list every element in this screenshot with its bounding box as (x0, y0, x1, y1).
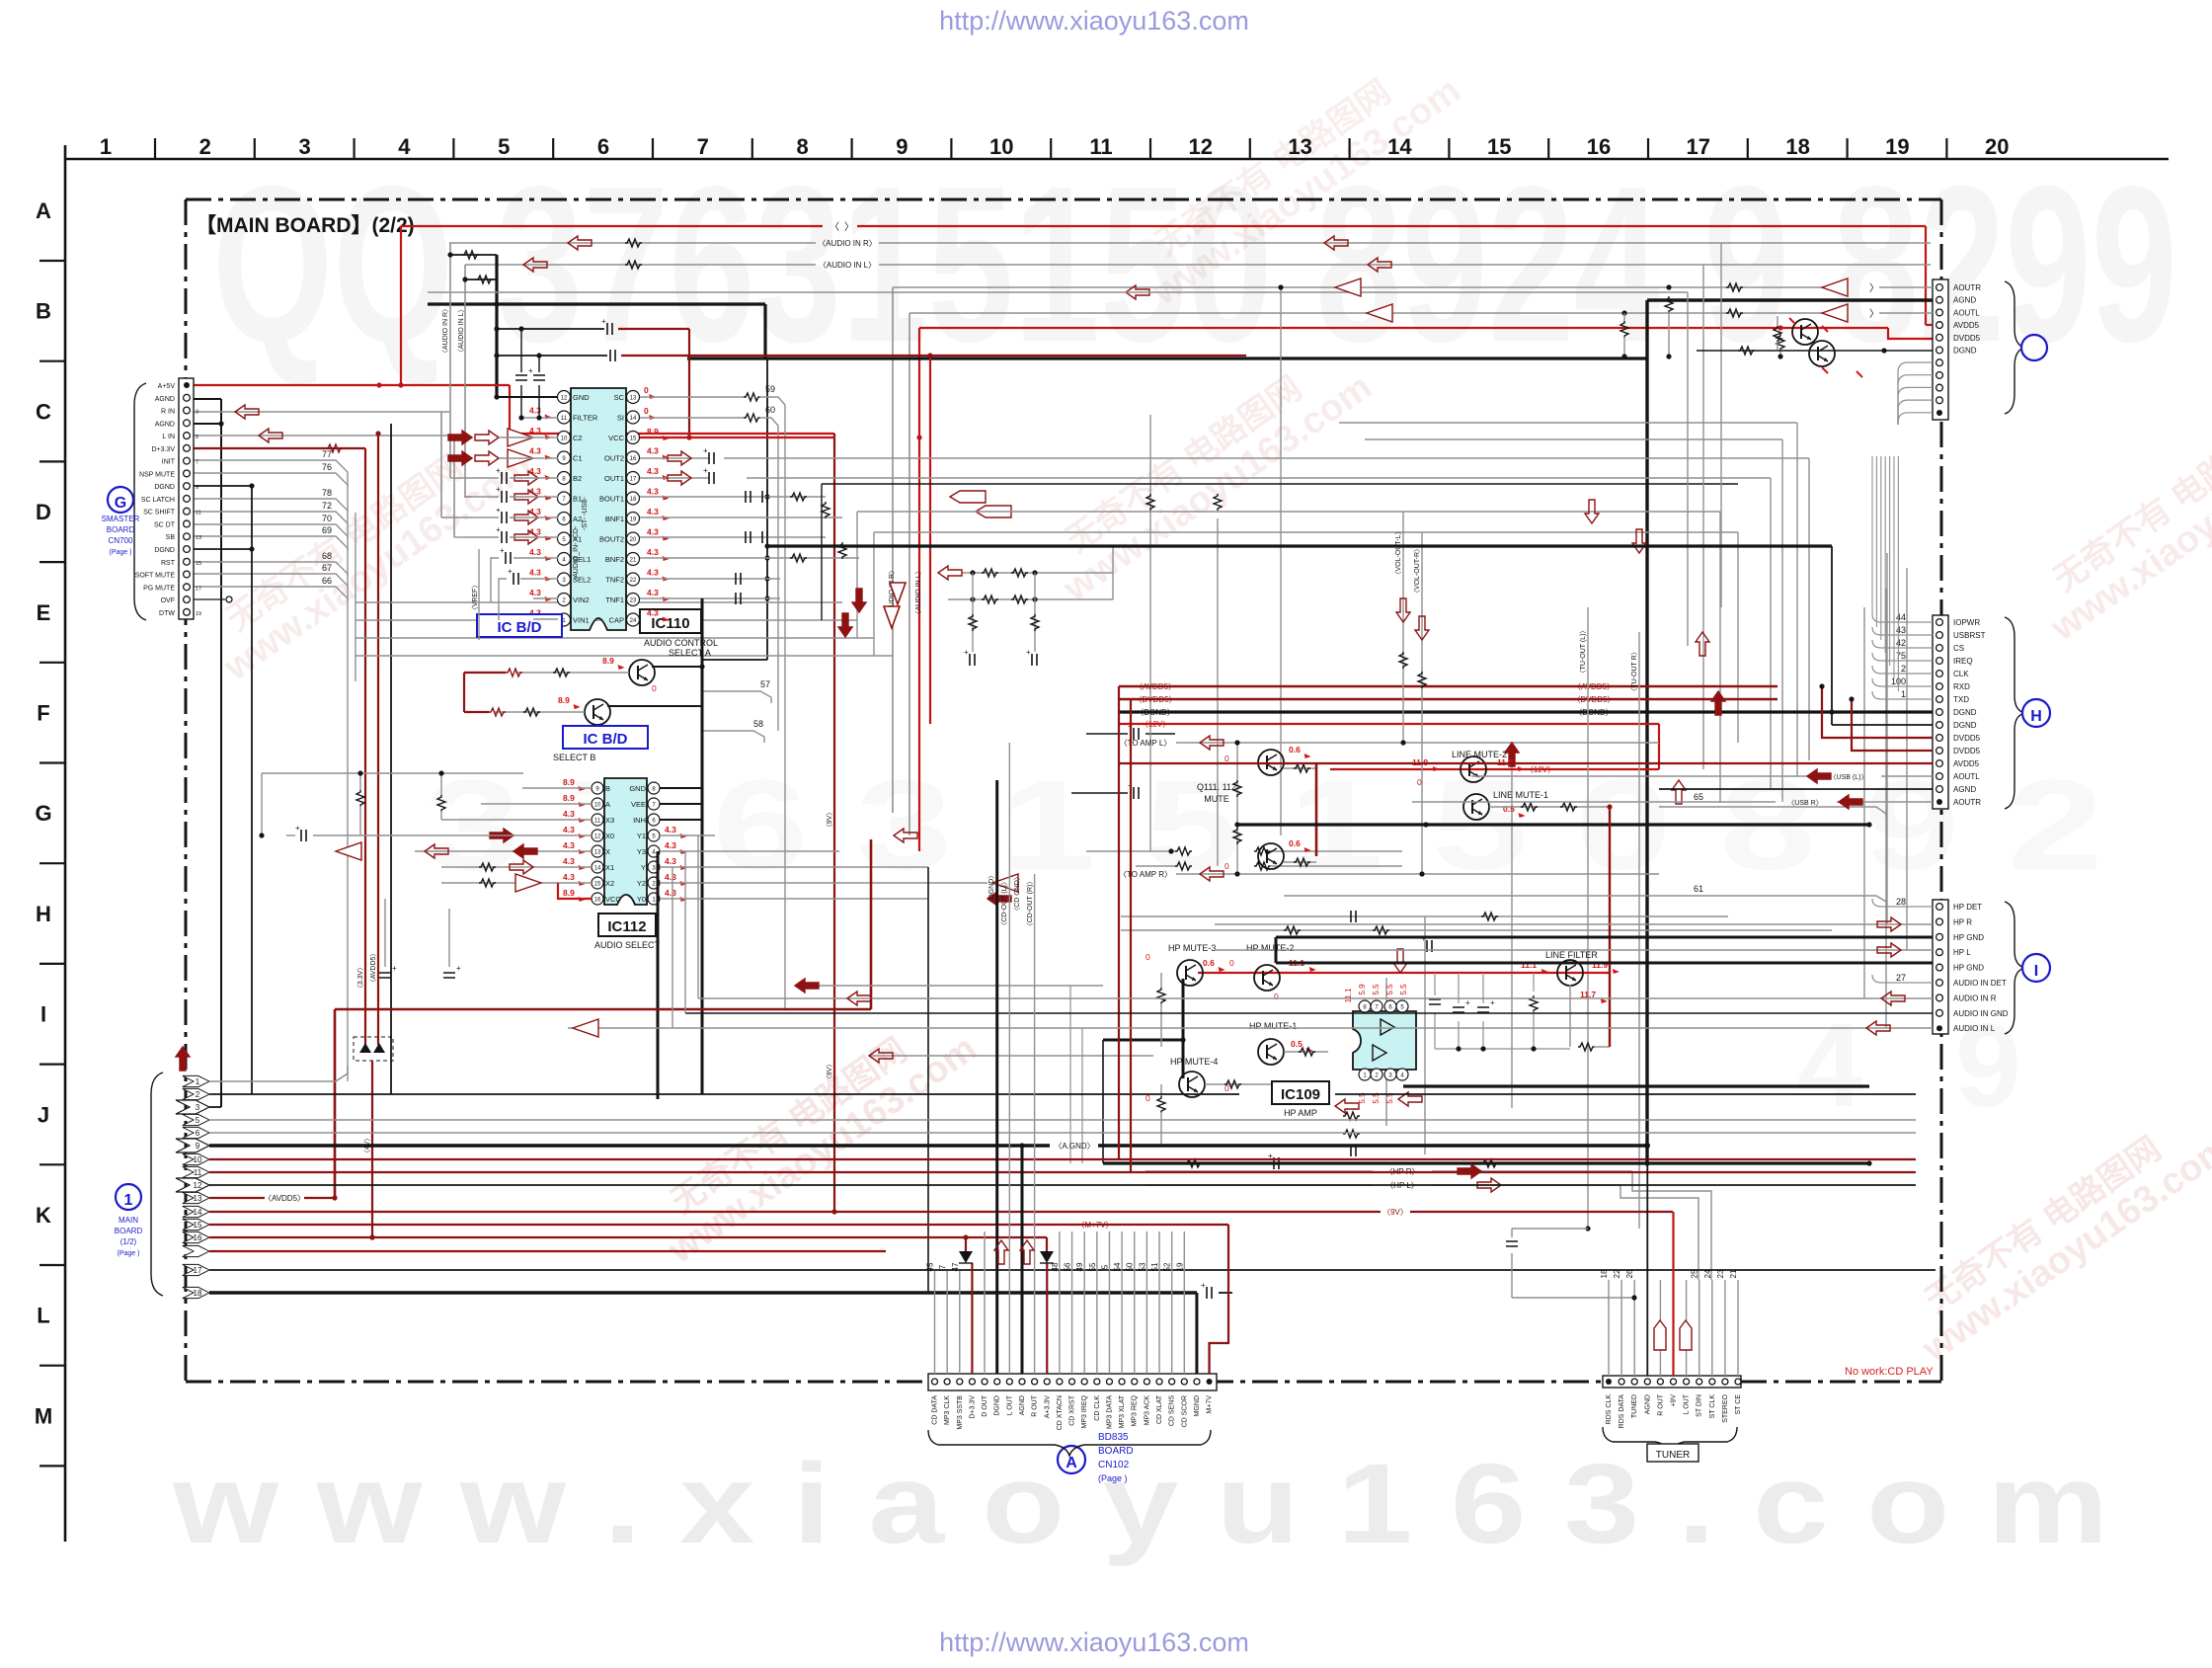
solid up arrow left (176, 1047, 190, 1071)
wire AUDIO IN R (449, 242, 816, 244)
wire G pin 66 (194, 587, 348, 600)
svg-text:〈VOL-OUT-R〉: 〈VOL-OUT-R〉 (1413, 545, 1421, 596)
pin CN102 MP3 ACK (1144, 1379, 1149, 1385)
pin IC110 BNF2 pin 21 (627, 553, 640, 566)
pin J 6 (183, 1127, 209, 1138)
pin H DGND (1936, 722, 1943, 729)
svg-text:CD CLK: CD CLK (1094, 1395, 1101, 1421)
bus 12V red (1119, 723, 1659, 725)
pin TUNER STEREO (1722, 1379, 1728, 1385)
connector right top box (1933, 279, 1948, 420)
caps below select (379, 973, 391, 978)
svg-text:DVDD5: DVDD5 (1953, 334, 1981, 343)
svg-text:A: A (605, 800, 610, 809)
svg-text:〈CD-OUT (L)〉: 〈CD-OUT (L)〉 (1000, 878, 1008, 929)
svg-text:SC DT: SC DT (154, 521, 176, 528)
svg-text:B1: B1 (573, 495, 582, 504)
vertical 1832 down (1808, 458, 1810, 760)
resistor vertical hp4 (1157, 1096, 1165, 1113)
svg-text:28: 28 (1896, 897, 1906, 907)
svg-text:2: 2 (196, 1090, 200, 1099)
svg-text:4.3: 4.3 (563, 825, 575, 834)
svg-text:12: 12 (594, 834, 601, 840)
svg-text:0: 0 (1229, 958, 1234, 968)
svg-text:A+5V: A+5V (158, 383, 176, 390)
pin J 13 (183, 1192, 209, 1203)
svg-text:AOUTR: AOUTR (1953, 283, 1981, 292)
solid up arrows F (1505, 743, 1519, 766)
label IC110 box (640, 609, 701, 633)
svg-text:+: + (508, 567, 513, 576)
svg-text:4.3: 4.3 (529, 547, 541, 557)
pin IC110 A1 pin 5 (558, 532, 571, 545)
wire G pin 77 (194, 460, 348, 474)
svg-text:4 9: 4 9 (1797, 999, 2051, 1132)
wire J15 M+7V (209, 1224, 1228, 1226)
pin right-top 11 (1936, 410, 1942, 416)
svg-text:19: 19 (196, 611, 201, 617)
svg-text:17: 17 (1687, 134, 1710, 159)
pentagon arrow row 503 (950, 491, 986, 503)
svg-text:+: + (1026, 648, 1031, 657)
pin IC110 CAP pin 24 (627, 613, 640, 626)
svg-text:SOFT MUTE: SOFT MUTE (135, 573, 176, 580)
svg-text:AVDD5: AVDD5 (1953, 321, 1980, 330)
svg-text:CN700: CN700 (109, 536, 133, 545)
extra verticals 1084 1096 (1069, 986, 1071, 1163)
wire dgnd right (1697, 350, 1933, 352)
svg-text:〈TO AMP R〉: 〈TO AMP R〉 (1119, 870, 1172, 879)
wire gray bundle vertical 360 (355, 513, 356, 681)
wire bus vertical left (892, 287, 894, 813)
label IC B/D blue box 2 (563, 726, 648, 749)
svg-text:23: 23 (630, 598, 637, 604)
wire TUNER col +9V (1672, 1212, 1674, 1376)
pin CN102 AGND (1019, 1379, 1025, 1385)
svg-text:5.5: 5.5 (1372, 984, 1381, 995)
pin CN102 A+3.3V (1044, 1379, 1050, 1385)
svg-text:AGND: AGND (155, 421, 175, 428)
pin IC110 OUT2 pin 16 (627, 451, 640, 464)
pentagon arrow row 518 (976, 506, 1011, 517)
pin CN102 MP3 DATA (1106, 1379, 1112, 1385)
svg-text:INH: INH (633, 816, 646, 825)
pin right-top DGND (1936, 347, 1943, 354)
label Q111 112 MUTE (1019, 1143, 1024, 1148)
svg-text:0: 0 (1145, 952, 1150, 962)
pin J blank (183, 1245, 209, 1256)
svg-text:+: + (703, 466, 708, 475)
svg-text:19: 19 (1175, 1262, 1184, 1271)
wire AVDD5 pin (1926, 324, 1933, 326)
svg-text:IC B/D: IC B/D (584, 731, 628, 748)
wire TUNER col AGND (1646, 1146, 1648, 1376)
svg-text:+9V: +9V (1671, 1394, 1678, 1407)
wire IC110 BOUT1 (640, 496, 826, 498)
arrows tuner R OUT L OUT (1654, 1320, 1666, 1350)
wire IC110 GND (497, 396, 558, 398)
watermark pink diagonal (1893, 1096, 2212, 1371)
svg-text:8.9: 8.9 (558, 695, 570, 705)
cap arrow input (502, 491, 507, 503)
arrow mid l (1368, 258, 1391, 272)
connector TUNER box (1603, 1376, 1741, 1388)
svg-text:〈TO AMP L〉: 〈TO AMP L〉 (1120, 739, 1172, 748)
svg-text:3: 3 (298, 134, 310, 159)
hatched up arrows (1672, 780, 1686, 804)
svg-text:I: I (2034, 963, 2038, 980)
pin G OVF (184, 596, 191, 603)
pin CN102 MP3 IREQ (1081, 1379, 1087, 1385)
svg-text:11: 11 (561, 416, 568, 422)
pin J 3 (176, 1100, 209, 1114)
transistor red marks and resistor AVDD5 (1777, 325, 1782, 330)
dark red vertical mute (1315, 762, 1318, 856)
svg-text:65: 65 (1694, 792, 1703, 802)
wire J18 thick (209, 1291, 1197, 1294)
svg-text:SMASTER: SMASTER (102, 515, 140, 523)
svg-text:〈AVDD5〉: 〈AVDD5〉 (1573, 682, 1615, 691)
svg-text:11: 11 (594, 819, 601, 825)
pin G NSP MUTE (184, 470, 191, 477)
svg-text:14: 14 (630, 416, 637, 422)
svg-text:I: I (40, 1002, 46, 1027)
svg-text:IC112: IC112 (607, 918, 646, 935)
wire CN102 col MP3 ACK (1145, 1231, 1147, 1374)
watermark pink diagonal (639, 997, 984, 1272)
vertical 1709 down (1687, 292, 1689, 646)
transistor HP MUTE-1 (1258, 1039, 1284, 1065)
pin right-top 8 (1936, 372, 1943, 379)
wire dark red vertical 470 (463, 673, 465, 712)
wire left rail down (261, 773, 263, 835)
wire line filter down (1569, 985, 1571, 1047)
svg-text:59: 59 (765, 384, 775, 394)
svg-text:17: 17 (194, 1266, 202, 1275)
svg-text:〉: 〉 (1869, 282, 1879, 294)
svg-text:HP MUTE-3: HP MUTE-3 (1168, 943, 1216, 953)
svg-text:PG MUTE: PG MUTE (143, 585, 175, 592)
pin TUNER ST CLK (1709, 1379, 1715, 1385)
svg-text:〈DVDD5〉: 〈DVDD5〉 (1134, 695, 1176, 704)
svg-text:ST CLK: ST CLK (1709, 1394, 1716, 1419)
pin CN102 MP3 SSTB (957, 1379, 963, 1385)
svg-text:X3: X3 (605, 816, 614, 825)
pin H CS (1936, 645, 1943, 652)
pin TUNER RDS CLK (1606, 1379, 1612, 1385)
wire IC112 X1 (441, 866, 592, 868)
down arrows outline pair VOL (1396, 598, 1410, 622)
transistor HP MUTE-3 (1177, 960, 1203, 986)
pin H AOUTL (1936, 773, 1943, 780)
wire TUNER col RDS CLK (1608, 1280, 1610, 1376)
svg-text:4.3: 4.3 (529, 588, 541, 597)
arrow R IN (235, 405, 259, 419)
pin IC112 A pin 10 (592, 798, 603, 810)
svg-text:4.3: 4.3 (647, 588, 659, 597)
svg-text:SI: SI (617, 414, 624, 423)
svg-text:AUDIO IN DET: AUDIO IN DET (1953, 979, 2007, 988)
svg-text:4.3: 4.3 (563, 809, 575, 819)
pin IC110 TNF2 pin 22 (627, 573, 640, 586)
svg-text:R OUT: R OUT (1657, 1393, 1664, 1416)
svg-text:RST: RST (161, 560, 176, 567)
arrow audio in l (523, 258, 547, 272)
svg-text:OUT1: OUT1 (604, 474, 624, 483)
pin J 17 (183, 1264, 209, 1275)
svg-text:+: + (456, 964, 461, 973)
pin IC109 bottom 3 (1384, 1069, 1396, 1080)
pin G INIT (184, 457, 191, 464)
wire J5 (209, 1119, 1916, 1121)
svg-text:+: + (496, 466, 501, 475)
pin H IOPWR (1936, 619, 1943, 626)
vertical TU-OUT L (1587, 607, 1589, 1229)
pin CN102 CD XRST (1069, 1379, 1075, 1385)
pin J 2 (183, 1088, 209, 1099)
svg-text:13: 13 (194, 1194, 202, 1203)
pin I HP GND (1936, 964, 1943, 971)
bus DVDD5 dark red (1119, 698, 1777, 701)
wire AGND2 (194, 423, 221, 425)
wire gray row 445 (1365, 438, 1782, 440)
svg-text:DGND: DGND (154, 484, 175, 491)
svg-text:12: 12 (1189, 134, 1213, 159)
pin IC110 B1 pin 7 (558, 492, 571, 505)
svg-text:5: 5 (1100, 1264, 1109, 1269)
wire HP L (1145, 1184, 1373, 1186)
svg-text:SC SHIFT: SC SHIFT (143, 510, 176, 516)
cap row D2 (1134, 787, 1139, 799)
svg-text:15: 15 (630, 437, 637, 442)
wire red vertical to A+5V (400, 226, 402, 385)
svg-text:24: 24 (1703, 1269, 1712, 1278)
pin H RXD (1936, 683, 1943, 690)
svg-text:76: 76 (322, 462, 332, 472)
wire IC112 Y2 (660, 882, 987, 884)
svg-text:+: + (392, 964, 397, 973)
svg-text:MUTE: MUTE (1204, 794, 1229, 804)
svg-text:No work:CD PLAY: No work:CD PLAY (1845, 1366, 1934, 1378)
svg-text:5.5: 5.5 (1399, 984, 1408, 995)
wire IC112 GND VEE INH to thick bus (660, 787, 702, 789)
svg-text:0: 0 (1224, 861, 1229, 871)
wire select b collector (607, 705, 702, 707)
caps bottom IC109 cluster (1343, 1112, 1360, 1120)
vertical gray 1531 (1511, 762, 1513, 1108)
wire row 668 (702, 659, 767, 661)
connector H box (1933, 615, 1948, 809)
svg-text:23: 23 (1716, 1269, 1725, 1278)
bracket right top (2005, 281, 2024, 414)
svg-text:13: 13 (630, 396, 637, 402)
svg-text:77: 77 (322, 449, 332, 459)
svg-text:〈TU-OUT R〉: 〈TU-OUT R〉 (1630, 648, 1638, 694)
wire J6 (209, 1132, 1916, 1134)
op-amp triangle 1 (1381, 1019, 1394, 1035)
svg-text:DGND: DGND (154, 547, 175, 554)
svg-text:18: 18 (630, 497, 637, 503)
svg-text:2: 2 (199, 134, 211, 159)
svg-text:A: A (36, 199, 51, 223)
svg-text:HP MUTE-2: HP MUTE-2 (1246, 943, 1294, 953)
wire M+7V corner (1210, 1225, 1229, 1374)
vertical 1165 (1149, 415, 1151, 851)
vertical 1743 down (1720, 243, 1722, 607)
svg-text:0: 0 (1417, 777, 1422, 787)
resistor vertical pair E (1146, 494, 1154, 511)
wire thick row 553 (767, 544, 1832, 547)
cap arrow input (502, 531, 507, 543)
wire TUNER col RDS DATA (1620, 1280, 1622, 1376)
svg-text:0.6: 0.6 (1203, 958, 1215, 968)
svg-text:IC110: IC110 (651, 615, 689, 632)
pin G SOFT MUTE (184, 571, 191, 578)
wire 12V down (1658, 724, 1660, 769)
svg-text:54: 54 (1113, 1262, 1122, 1271)
pin I AUDIO IN R (1936, 994, 1943, 1001)
wire IC112 X3 (441, 819, 592, 821)
svg-text:+: + (496, 506, 501, 515)
svg-text:51: 51 (1150, 1262, 1159, 1271)
svg-text:4.3: 4.3 (647, 446, 659, 456)
wire I HP R (1215, 923, 1933, 925)
svg-text:A+3.3V: A+3.3V (1044, 1395, 1051, 1418)
vertical 1793 down (1770, 478, 1772, 789)
wire dark red base feed 2 (464, 711, 489, 713)
label TUNER box (1647, 1444, 1698, 1462)
wire thick black row C2 (687, 357, 1647, 359)
svg-text:49: 49 (1075, 1262, 1084, 1271)
pin IC110 SEL1 pin 4 (558, 553, 571, 566)
pin IC110 VIN1 pin 1 (558, 613, 571, 626)
svg-text:AVDD5: AVDD5 (1953, 759, 1980, 768)
pin CN102 MP3 CLK (944, 1379, 950, 1385)
pin CN102 CD SCOR (1181, 1379, 1187, 1385)
cap J18 (1207, 1287, 1212, 1299)
svg-text:11: 11 (194, 1168, 202, 1177)
svg-text:61: 61 (1694, 884, 1703, 894)
svg-text:【MAIN BOARD】(2/2): 【MAIN BOARD】(2/2) (196, 214, 415, 237)
svg-text:9: 9 (196, 1142, 200, 1151)
dark red 9V horizontal (335, 1008, 871, 1011)
transistor HP MUTE-4 (1179, 1072, 1205, 1097)
wire J10 (209, 1158, 1916, 1160)
caps above IC110 (515, 375, 527, 380)
svg-text:AGND: AGND (1953, 296, 1976, 305)
pin H DVDD5 (1936, 735, 1943, 742)
watermark pink diagonal (1034, 336, 1379, 610)
arrow audio in r (568, 236, 592, 250)
svg-text:18: 18 (1785, 134, 1809, 159)
svg-text:SELECT B: SELECT B (553, 753, 595, 762)
svg-text:60: 60 (765, 405, 775, 415)
vertical 1820 down (1796, 423, 1798, 776)
wire I HP GND thick (1276, 936, 1933, 939)
pin H AGND (1936, 786, 1943, 793)
svg-text:〈AVDD5〉: 〈AVDD5〉 (369, 950, 377, 987)
wire J14 +9V (209, 1211, 1381, 1213)
pin J 10 (183, 1153, 209, 1164)
wire red link diodes (965, 1237, 967, 1251)
pin H DVDD5 (1936, 748, 1943, 755)
svg-text:11.1: 11.1 (1344, 988, 1353, 1003)
diode pair box (354, 1037, 393, 1061)
wire thick AGND top right (1647, 298, 1939, 301)
cap tuner left (1512, 1228, 1588, 1230)
vertical VOL-OUT-L (1402, 512, 1404, 743)
open triangle down arrows mid (890, 583, 906, 604)
svg-text:BOARD: BOARD (115, 1227, 143, 1235)
svg-text:5: 5 (196, 435, 198, 440)
svg-text:(Page ): (Page ) (118, 1250, 140, 1257)
svg-text:4.3: 4.3 (647, 568, 659, 578)
svg-text:http://www.xiaoyu163.com: http://www.xiaoyu163.com (939, 6, 1249, 36)
svg-text:SELECT A: SELECT A (669, 648, 711, 658)
svg-text:+: + (964, 648, 969, 657)
arrow L IN (259, 429, 282, 442)
vertical VOL-OUT-R (1421, 532, 1423, 874)
wire G pin 72 (194, 512, 348, 525)
svg-text:66: 66 (322, 576, 332, 586)
svg-text:17: 17 (196, 586, 201, 592)
ruler left ticks (39, 260, 65, 262)
circle H blue (2022, 699, 2050, 727)
wire CN102 col A+3.3V (1046, 1263, 1048, 1374)
svg-text:0.6: 0.6 (1289, 838, 1301, 848)
svg-text:IC B/D: IC B/D (498, 619, 542, 636)
svg-text:8.9: 8.9 (563, 888, 575, 898)
svg-text:15: 15 (1487, 134, 1511, 159)
svg-text:〈AUDIO IN L〉: 〈AUDIO IN L〉 (914, 568, 922, 618)
wire CN102 col CD DATA (934, 1271, 936, 1374)
pin J 15 (183, 1219, 209, 1230)
watermark pink diagonal (2021, 375, 2212, 650)
bus TO AMP L (1176, 742, 1659, 744)
svg-text:〈M+7V〉: 〈M+7V〉 (1076, 1221, 1113, 1230)
svg-text:AUDIO IN R: AUDIO IN R (1953, 993, 1997, 1002)
svg-text:5.9: 5.9 (1358, 984, 1367, 995)
svg-text:LINE MUTE-1: LINE MUTE-1 (1493, 790, 1548, 800)
vertical 1931 gray (1906, 568, 1908, 950)
resistor ladder D2 (1175, 862, 1192, 870)
svg-text:CD SENS: CD SENS (1169, 1395, 1176, 1426)
pin I AUDIO IN DET (1936, 980, 1943, 987)
pin IC112 Y3 pin 4 (648, 845, 660, 857)
wire DGND stub (194, 485, 252, 487)
wire VIN2 (533, 597, 558, 599)
svg-text:MP3 REQ: MP3 REQ (1132, 1394, 1139, 1426)
curved wires below right-top connector (1898, 362, 1933, 425)
pin TUNER TUNED (1631, 1379, 1637, 1385)
wire IC110 SC (640, 396, 744, 398)
svg-text:4.3: 4.3 (563, 840, 575, 850)
vertical gray 1404 (1385, 978, 1387, 1126)
ladder cluster row 607 (948, 598, 1113, 600)
svg-text:6: 6 (196, 1129, 200, 1138)
svg-text:68: 68 (322, 551, 332, 561)
wire q111 emitter resistor (1284, 767, 1316, 769)
watermark pink diagonal (1123, 40, 1467, 314)
svg-text:AOUTL: AOUTL (1953, 772, 1980, 781)
svg-text:10: 10 (594, 803, 601, 809)
svg-text:1: 1 (124, 1192, 133, 1209)
svg-text:TNF1: TNF1 (605, 596, 624, 604)
label IC109 box (1272, 1081, 1329, 1104)
pin H AVDD5 (1936, 760, 1943, 767)
pin IC110 VCC pin 15 (627, 432, 640, 444)
pin CN102 DGND (994, 1379, 1000, 1385)
